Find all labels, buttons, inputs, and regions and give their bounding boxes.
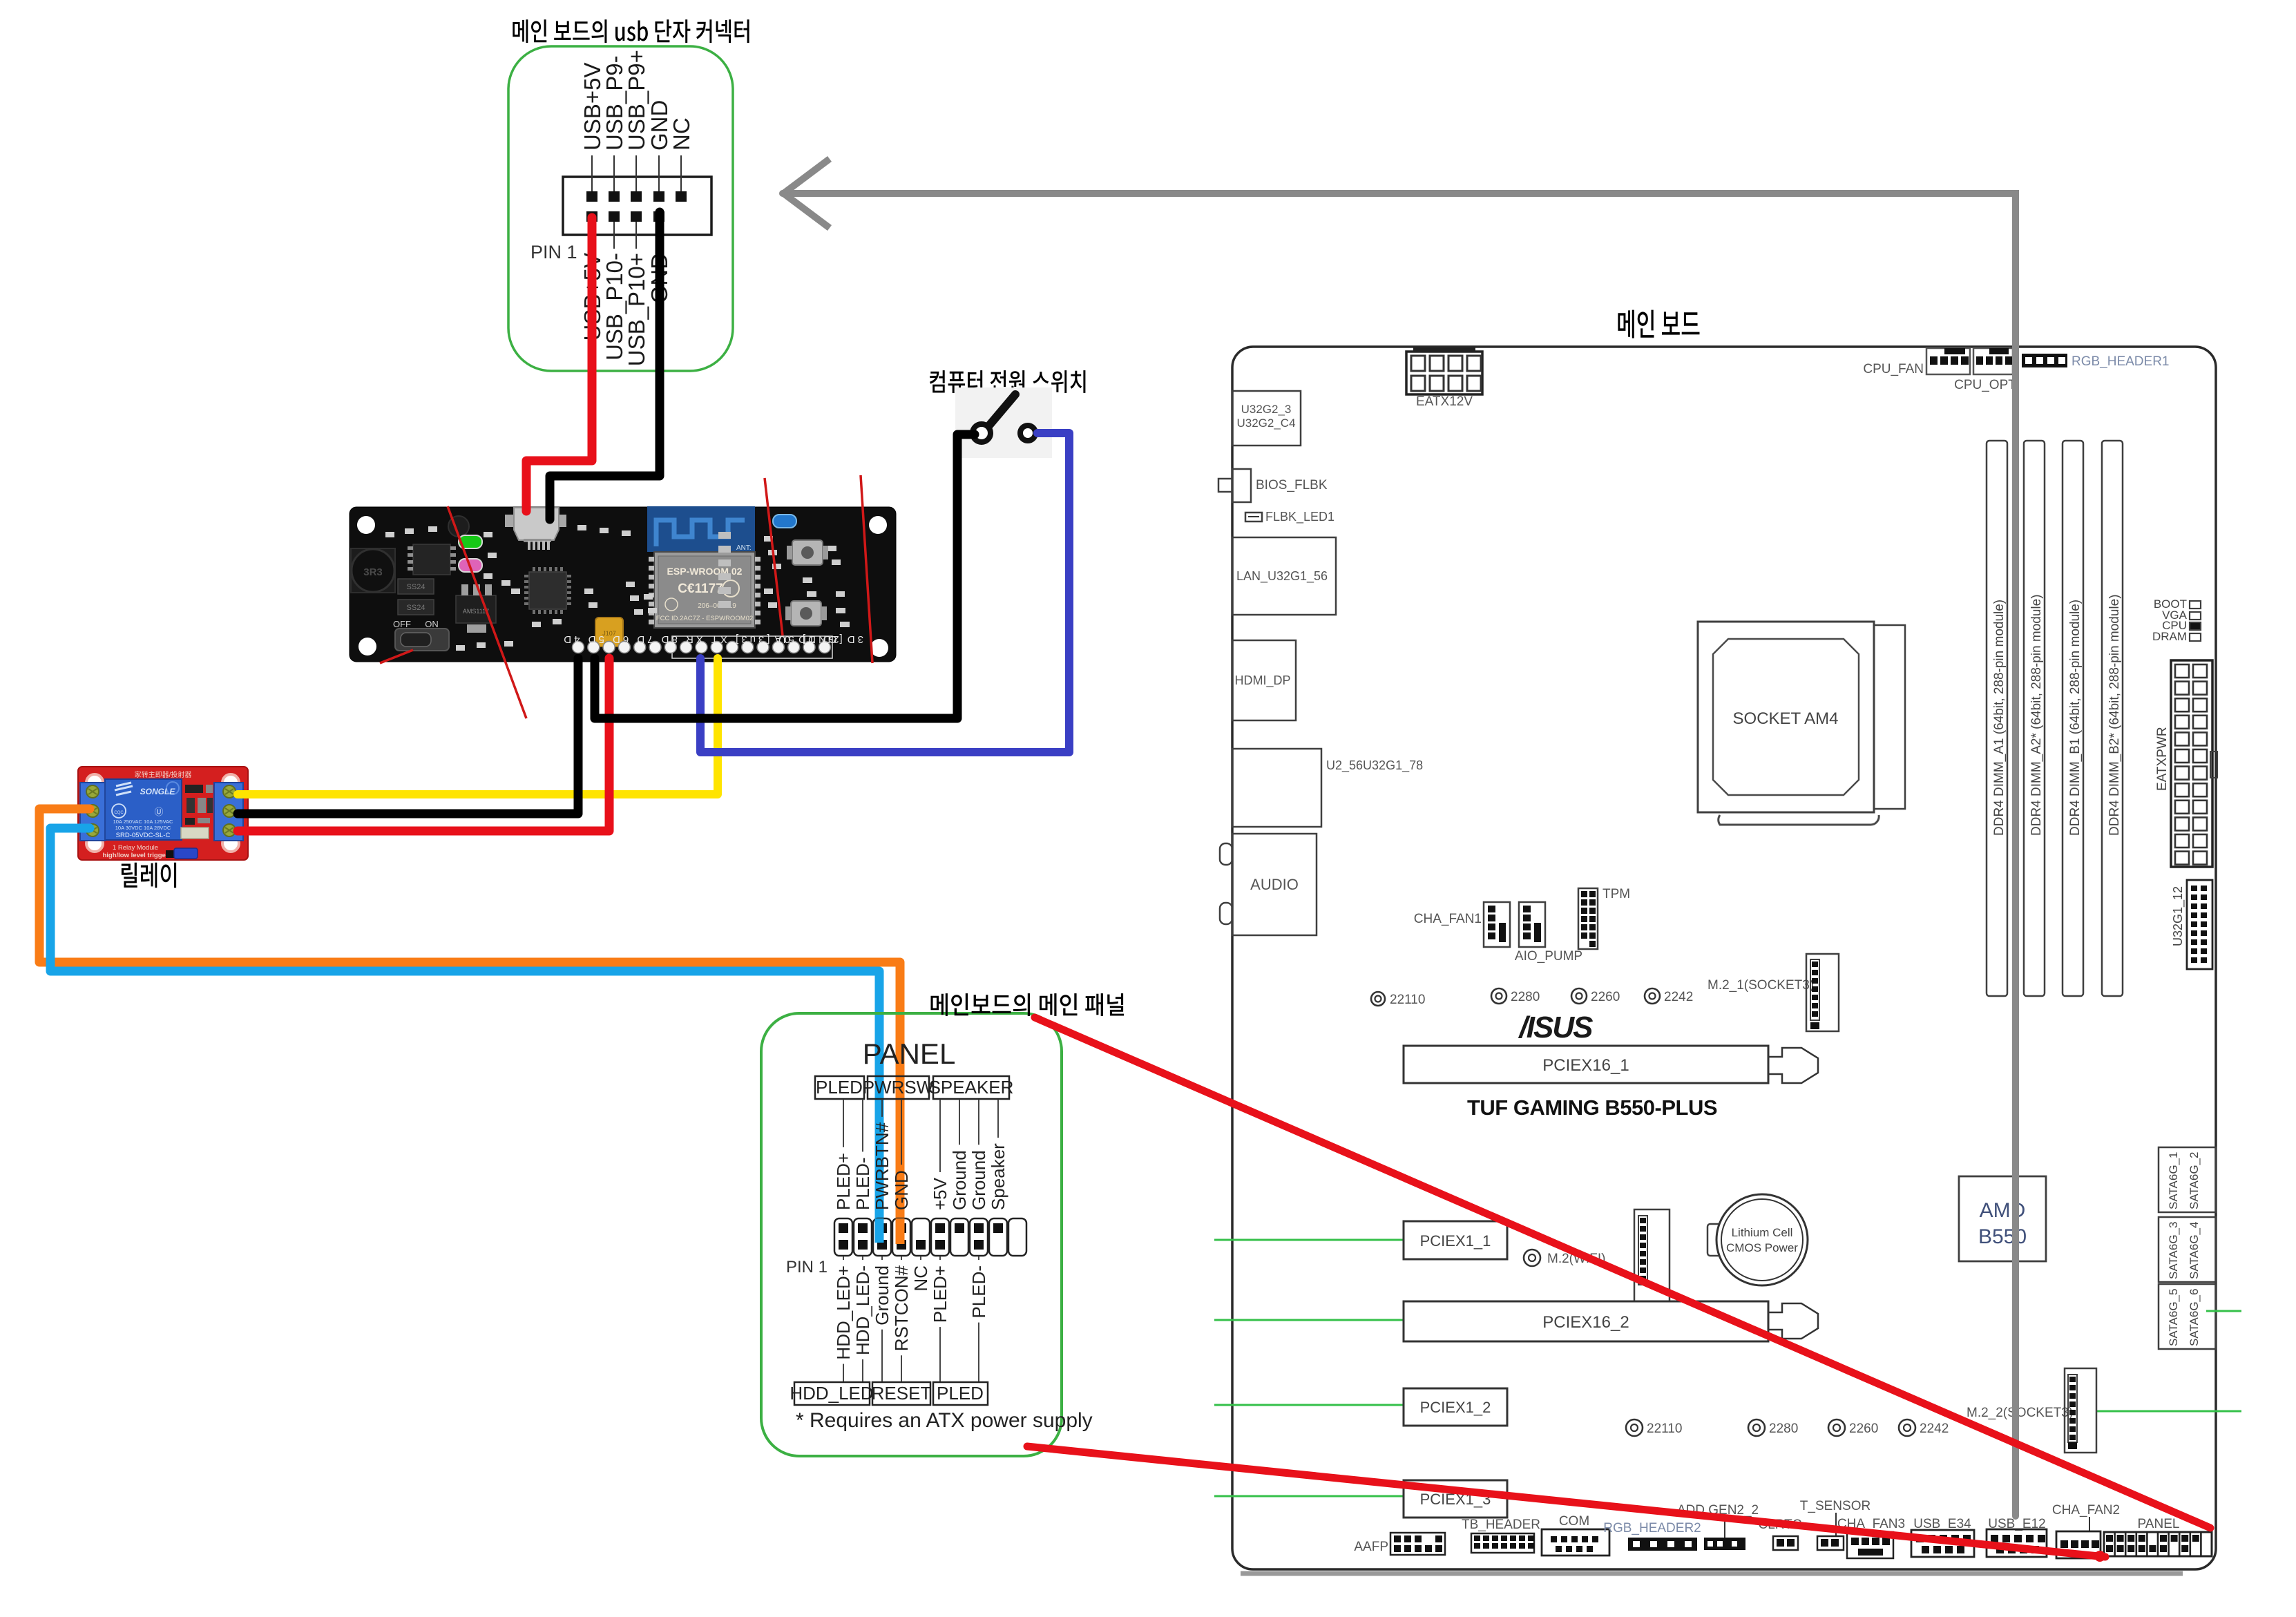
svg-text:DDR4 DIMM_A2* (64bit, 288-pin: DDR4 DIMM_A2* (64bit, 288-pin module) [2029, 594, 2044, 836]
svg-text:SATA6G_2: SATA6G_2 [2188, 1152, 2201, 1209]
svg-text:AIO_PUMP: AIO_PUMP [1515, 949, 1582, 964]
wire lightblue (relay NO to panel PWRBTN) [50, 828, 879, 1236]
board shadow [1241, 1571, 2183, 1576]
svg-text:high/low level trigger: high/low level trigger [102, 852, 168, 859]
svg-text:PLED: PLED [816, 1077, 863, 1098]
slot PCIEX16_2 [1404, 1301, 1768, 1341]
SMD components [385, 525, 845, 651]
svg-text:Ground: Ground [872, 1265, 892, 1326]
LED FLBK_LED1 [1245, 513, 1262, 522]
wire black (GND to ESP usb) [550, 212, 660, 519]
svg-text:B550: B550 [1978, 1225, 2027, 1248]
connector USB header [563, 177, 711, 235]
chipset AMD B550 [1959, 1176, 2046, 1261]
connector U32G2_3/C4 [1232, 391, 1301, 446]
AMS1117 regulator [456, 595, 496, 623]
svg-text:PCIEX1_2: PCIEX1_2 [1420, 1399, 1491, 1416]
pin stem [680, 155, 682, 191]
svg-text:PLED+: PLED+ [833, 1153, 854, 1210]
pin stem [635, 222, 637, 249]
blue LED part [773, 515, 796, 528]
box HDD_LED [794, 1382, 870, 1405]
switch body [955, 387, 1052, 458]
pin stem [591, 155, 593, 191]
capacitor [448, 516, 469, 537]
svg-text:EATX12V: EATX12V [1416, 394, 1473, 409]
slot PCIEX1_2 [1404, 1388, 1507, 1426]
pin stem [613, 222, 615, 249]
SoC chip [529, 572, 566, 609]
DIMM slot 4 [2102, 441, 2123, 996]
slot PCIEX16_1 [1404, 1046, 1768, 1083]
green LED [459, 535, 482, 548]
socket lever [1719, 815, 1879, 825]
svg-text:U32G2_3: U32G2_3 [1241, 403, 1292, 416]
svg-text:TB_HEADER: TB_HEADER [1462, 1518, 1540, 1532]
connector CPU_OPT [1973, 348, 2013, 374]
connector M.2 wifi slot [1634, 1209, 1670, 1301]
svg-text:FCC ID.2AC7Z - ESPWROOM02: FCC ID.2AC7Z - ESPWROOM02 [656, 615, 753, 622]
svg-text:LAN_U32G1_56: LAN_U32G1_56 [1236, 569, 1328, 584]
connector BIOS_FLBK [1218, 479, 1232, 492]
wire ends into panel [875, 1218, 884, 1243]
svg-text:CPU_FAN: CPU_FAN [1863, 362, 1924, 376]
svg-text:RESET: RESET [872, 1383, 932, 1404]
box RESET [872, 1382, 930, 1405]
svg-text:PIN 1: PIN 1 [786, 1258, 827, 1276]
svg-text:OFF: OFF [393, 619, 411, 629]
svg-text:COM: COM [1559, 1514, 1589, 1529]
svg-text:PLED-: PLED- [968, 1265, 989, 1319]
svg-text:SATA6G_3: SATA6G_3 [2167, 1222, 2180, 1279]
PANEL pin header [834, 1218, 852, 1256]
svg-text:2242: 2242 [1664, 990, 1693, 1004]
svg-text:DDR4 DIMM_B1 (64bit, 288-pin m: DDR4 DIMM_B1 (64bit, 288-pin module) [2068, 600, 2083, 836]
svg-text:Lithium Cell: Lithium Cell [1732, 1226, 1793, 1239]
svg-text:HDD_LED: HDD_LED [790, 1383, 873, 1404]
svg-text:PIN 1: PIN 1 [530, 242, 577, 262]
svg-text:RGB_HEADER1: RGB_HEADER1 [2072, 354, 2170, 369]
svg-text:/ISUS: /ISUS [1518, 1011, 1594, 1044]
svg-text:C€1177: C€1177 [678, 582, 723, 596]
wire black (switch to ESP GND) [595, 434, 975, 718]
relay terminal block left [80, 783, 105, 841]
wire yellow (ESP D5 to relay IN) [238, 658, 718, 794]
connector AIO_PUMP [1519, 902, 1545, 947]
pin header row [672, 636, 832, 658]
connector RGB_HEADER1 [2022, 354, 2067, 367]
box PWRSW [868, 1076, 929, 1099]
pin [609, 211, 620, 222]
wire red (ESP 5V to relay DC+) [238, 658, 609, 831]
mounting holes [357, 516, 375, 534]
svg-text:Ⓤ: Ⓤ [154, 807, 163, 817]
connector EATX12V [1413, 347, 1475, 353]
svg-text:NC: NC [910, 1265, 931, 1292]
slot PCIEX1_3 [1404, 1480, 1507, 1518]
svg-text:CHA_FAN2: CHA_FAN2 [2052, 1503, 2120, 1518]
box SPEAKER [933, 1076, 1009, 1099]
svg-text:U2_56U32G1_78: U2_56U32G1_78 [1326, 758, 1423, 773]
svg-text:PWRBTN#: PWRBTN# [872, 1122, 892, 1210]
connector SATA6G_3/SATA6G_4 [2159, 1217, 2216, 1282]
svg-text:RSTCON#: RSTCON# [891, 1265, 912, 1351]
svg-text:SATA6G_1: SATA6G_1 [2167, 1152, 2180, 1209]
DIMM slot 1 [1987, 441, 2007, 996]
box PLED [815, 1076, 864, 1099]
svg-text:SS24: SS24 [407, 604, 425, 612]
svg-text:FLBK_LED1: FLBK_LED1 [1265, 510, 1334, 524]
green leader lines [1214, 1239, 1404, 1241]
svg-text:TUF GAMING B550-PLUS: TUF GAMING B550-PLUS [1467, 1095, 1717, 1120]
svg-text:2242: 2242 [1920, 1422, 1949, 1436]
svg-text:DDR4 DIMM_A1 (64bit, 288-pin m: DDR4 DIMM_A1 (64bit, 288-pin module) [1992, 600, 2007, 836]
M.2 WIFI standoff [1524, 1250, 1540, 1266]
wire orange (relay COM to panel GND) [39, 809, 900, 1236]
button 1 [792, 540, 823, 565]
SOIC chip [413, 544, 450, 575]
svg-text:RGB_HEADER2: RGB_HEADER2 [1603, 1521, 1701, 1535]
diode SS24 [398, 579, 434, 594]
DIMM slot 3 [2063, 441, 2083, 996]
switch terminal left [973, 424, 991, 442]
svg-text:SATA6G_4: SATA6G_4 [2188, 1222, 2201, 1279]
connector SATA6G_1/SATA6G_2 [2159, 1147, 2216, 1212]
svg-text:EATXPWR: EATXPWR [2155, 727, 2170, 791]
pin [653, 191, 664, 202]
svg-text:DRAM: DRAM [2152, 630, 2187, 643]
svg-text:PLED: PLED [937, 1383, 984, 1404]
svg-text:CQC: CQC [114, 811, 124, 815]
slot PCIEX1_1 [1404, 1221, 1507, 1259]
svg-text:SPEAKER: SPEAKER [929, 1077, 1014, 1098]
pin [609, 191, 620, 202]
svg-text:U32G2_C4: U32G2_C4 [1236, 417, 1295, 430]
micro-USB connector [505, 515, 514, 527]
svg-text:2260: 2260 [1849, 1422, 1878, 1436]
annotation red line 2 [1027, 1446, 2105, 1557]
tantalum cap [595, 618, 623, 647]
pin stem [613, 155, 615, 191]
svg-text:AUDIO: AUDIO [1250, 876, 1299, 893]
svg-text:PANEL: PANEL [863, 1037, 956, 1070]
svg-text:CPU_OPT: CPU_OPT [1954, 378, 2016, 392]
svg-text:2260: 2260 [1591, 990, 1620, 1004]
svg-text:PANEL: PANEL [2138, 1517, 2180, 1531]
svg-text:PLED+: PLED+ [930, 1265, 950, 1323]
svg-text:SONGLE: SONGLE [140, 787, 176, 796]
arrowhead [783, 159, 830, 194]
svg-text:CMOS Power: CMOS Power [1726, 1241, 1798, 1254]
svg-text:HDD_LED+: HDD_LED+ [833, 1265, 854, 1360]
pin [586, 191, 597, 202]
svg-text:HDD_LED-: HDD_LED- [852, 1265, 873, 1355]
pin [653, 211, 664, 222]
relay terminal block right [214, 783, 243, 841]
label: mainboard (Korean) [1618, 310, 1699, 338]
ESP antenna [647, 506, 755, 552]
svg-text:SATA6G_5: SATA6G_5 [2167, 1289, 2180, 1346]
pin [631, 211, 642, 222]
diode SS24 [398, 600, 434, 615]
svg-text:PWRSW: PWRSW [863, 1077, 934, 1098]
svg-text:BIOS_FLBK: BIOS_FLBK [1256, 478, 1328, 492]
svg-text:Ground: Ground [968, 1150, 989, 1210]
wire red (USB+5V to ESP usb) [526, 218, 592, 511]
svg-text:TPM: TPM [1603, 887, 1630, 901]
M.2 standoffs [1371, 992, 1385, 1006]
svg-text:NC: NC [669, 117, 694, 151]
connector EATXPWR [2171, 660, 2212, 867]
pin labels top [843, 1099, 844, 1147]
svg-text:ESP-WROOM 02: ESP-WROOM 02 [667, 566, 743, 577]
svg-text:GND: GND [891, 1170, 912, 1210]
relay cube SONGLE [105, 779, 182, 840]
svg-text:USB_P10+: USB_P10+ [624, 253, 649, 366]
svg-text:PCIEX1_1: PCIEX1_1 [1420, 1232, 1491, 1250]
relay corner holes [86, 774, 103, 791]
svg-text:Ground: Ground [949, 1150, 970, 1210]
svg-text:PCIEX16_2: PCIEX16_2 [1542, 1313, 1629, 1332]
svg-text:22110: 22110 [1390, 993, 1425, 1007]
svg-text:USB_P9+: USB_P9+ [624, 50, 649, 151]
svg-text:+5V: +5V [930, 1177, 950, 1210]
svg-text:3R3: 3R3 [363, 566, 383, 578]
relay module board [78, 767, 248, 860]
label: USB connector of mainboard (Korean) [513, 19, 749, 43]
svg-text:2280: 2280 [1769, 1422, 1798, 1436]
wire grey (USB_E12 to USB header) [783, 193, 2016, 1516]
connector U2_56U32G1_78 [1232, 749, 1321, 827]
svg-text:T_SENSOR: T_SENSOR [1800, 1499, 1871, 1513]
inductor 3R3 [351, 548, 395, 593]
pin labels bottom [843, 1256, 844, 1260]
relay SMD parts [185, 785, 203, 793]
connector TPM [1578, 888, 1598, 949]
switch lever [989, 394, 1015, 425]
switch terminal right [1020, 425, 1035, 441]
pin [676, 191, 687, 202]
ESP-WROOM-02 module [654, 552, 755, 628]
label: relay (Korean) [122, 863, 176, 888]
connector AUDIO [1232, 834, 1317, 935]
annotation lines (red) [448, 506, 526, 718]
SOCKET AM4 [1698, 622, 1874, 812]
annotation red line 1 [1035, 1017, 2210, 1528]
button 2 [791, 601, 821, 626]
svg-text:ON: ON [425, 619, 439, 629]
battery lithium cell [1707, 1224, 1721, 1256]
motherboard outline [1232, 347, 2216, 1569]
label: main panel of mainboard (Korean) [931, 993, 1125, 1016]
connector U32G1_12 [2187, 880, 2212, 969]
svg-text:Speaker: Speaker [988, 1143, 1008, 1210]
pin [631, 191, 642, 202]
svg-text:SRD-05VDC-SL-C: SRD-05VDC-SL-C [116, 832, 171, 839]
svg-text:AAFP: AAFP [1354, 1540, 1388, 1554]
pin stem [658, 155, 660, 191]
PANEL outline box [761, 1013, 1062, 1456]
svg-text:3D 2D 1D 0A: 3D 2D 1D 0A [772, 633, 863, 645]
connector HDMI_DP [1232, 640, 1296, 720]
svg-text:22110: 22110 [1647, 1422, 1682, 1436]
relay jumper [166, 850, 174, 858]
svg-text:1 Relay Module: 1 Relay Module [113, 844, 158, 852]
label: computer power switch (Korean) [930, 370, 1086, 393]
pink LED [459, 559, 482, 572]
svg-text:SS24: SS24 [407, 583, 425, 591]
svg-text:10A 30VDC 10A 28VDC: 10A 30VDC 10A 28VDC [115, 825, 171, 831]
wire blue (switch to ESP D7) [700, 433, 1069, 752]
ESP8266 board [350, 507, 896, 662]
svg-text:10A 250VAC 10A 125VAC: 10A 250VAC 10A 125VAC [113, 819, 173, 825]
svg-text:PLED-: PLED- [852, 1157, 873, 1210]
svg-text:* Requires an ATX power supply: * Requires an ATX power supply [796, 1409, 1093, 1432]
svg-text:家转主即器/投射器: 家转主即器/投射器 [135, 770, 192, 779]
svg-text:HDMI_DP: HDMI_DP [1234, 673, 1290, 688]
svg-text:SOCKET AM4: SOCKET AM4 [1733, 709, 1839, 728]
wire black (ESP GND to relay DC-) [238, 658, 578, 814]
svg-text:2280: 2280 [1511, 990, 1540, 1004]
svg-text:M.2_2(SOCKET3): M.2_2(SOCKET3) [1967, 1406, 2073, 1420]
connector SATA6G_5/SATA6G_6 [2159, 1284, 2216, 1349]
svg-text:CHA_FAN1: CHA_FAN1 [1414, 912, 1482, 926]
USB header outline box [508, 46, 733, 371]
svg-text:PCIEX16_1: PCIEX16_1 [1542, 1056, 1629, 1075]
connector LAN_U32G1_56 [1232, 537, 1336, 615]
svg-text:U32G1_12: U32G1_12 [2171, 886, 2185, 946]
pin [586, 211, 597, 222]
box PLED [933, 1382, 988, 1405]
svg-text:ANT:: ANT: [736, 544, 752, 552]
svg-text:M.2_1(SOCKET3): M.2_1(SOCKET3) [1707, 978, 1814, 993]
pin stem [635, 155, 637, 191]
svg-text:DDR4 DIMM_B2* (64bit, 288-pin: DDR4 DIMM_B2* (64bit, 288-pin module) [2107, 594, 2122, 836]
svg-text:SATA6G_6: SATA6G_6 [2188, 1289, 2201, 1346]
DIMM slot 2 [2024, 441, 2045, 996]
